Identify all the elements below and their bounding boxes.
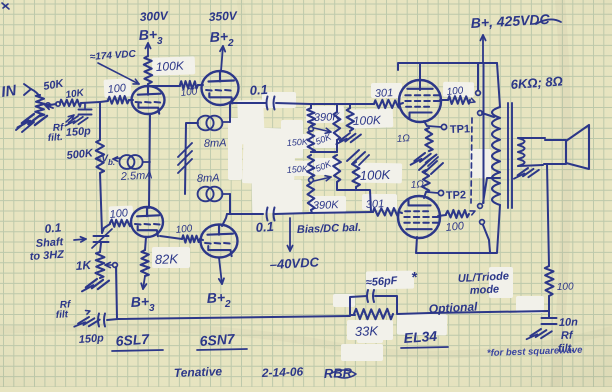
svg-text:Tenative: Tenative (174, 364, 223, 380)
wire secondary to speaker (519, 137, 545, 139)
wiper 1K to feedback (105, 264, 112, 266)
switch terminals #2 (478, 204, 483, 209)
current source 8mA upper (198, 116, 214, 131)
triode V1a (6SL7 a) (132, 86, 165, 114)
svg-text:B+: B+ (130, 293, 149, 310)
ground hatch on bias rail (178, 143, 192, 157)
svg-text:0.1: 0.1 (249, 82, 268, 98)
wire 500K down to lower stage (100, 173, 102, 233)
whiteout patches labels (152, 56, 196, 75)
svg-text:10n: 10n (559, 316, 579, 329)
triode V2b (6SN7 b) (201, 225, 238, 258)
svg-text:1K: 1K (75, 258, 93, 273)
wire varcap node (102, 224, 110, 233)
svg-text:100: 100 (175, 223, 193, 236)
ground (100K upper) (336, 131, 361, 147)
ground (50K pot) (18, 112, 48, 131)
capacitor 150p RF filter (input) (84, 103, 86, 108)
svg-text:300V: 300V (139, 8, 169, 23)
wire wiper to 10K (46, 103, 50, 107)
transformer primary (497, 63, 500, 107)
wire V1a cathode to V1b plate (149, 114, 150, 208)
svg-text:B+: B+ (138, 26, 157, 43)
wire V2b plate top (222, 214, 227, 226)
svg-text:to 3HZ: to 3HZ (29, 249, 65, 263)
svg-text:3: 3 (157, 36, 163, 47)
capacitor 10n RF filter out (542, 317, 557, 319)
ground (150p input filter) (65, 114, 87, 129)
svg-text:100: 100 (107, 82, 127, 96)
resistor 100 (grid stopper V2a) (180, 81, 198, 89)
svg-text:3: 3 (149, 303, 155, 314)
variable capacitor 0.1 shaft (94, 235, 109, 237)
stray mark (2, 3, 9, 9)
triode V2a (6SN7 a) (202, 71, 239, 105)
wire V1b to 82K (145, 237, 146, 250)
svg-text:150p: 150p (78, 332, 104, 346)
svg-text:–40VDC: –40VDC (269, 254, 319, 272)
wire plate V1a up to node (147, 84, 149, 86)
wire bottom of pot chain (337, 182, 371, 212)
switch arrow #1 (470, 98, 475, 102)
svg-text:0.1: 0.1 (44, 220, 62, 236)
cathode TP2 (427, 192, 438, 193)
svg-text:150K: 150K (286, 136, 309, 148)
wire plate node to 100 resistor (148, 85, 180, 87)
svg-text:TP1: TP1 (450, 123, 471, 136)
dashed gang line (471, 118, 472, 203)
svg-text:100: 100 (445, 220, 465, 234)
arrow to -40VDC (289, 218, 291, 251)
svg-text:1Ω: 1Ω (410, 179, 424, 191)
svg-text:mode: mode (470, 283, 500, 297)
ground (150p feedback) (74, 314, 99, 332)
wire source left + bias rail (185, 123, 198, 194)
wire lower row (227, 213, 263, 215)
wire left vertical (plate rail) (483, 63, 485, 203)
ground (secondary) (514, 166, 539, 183)
wire feedback long (397, 311, 549, 314)
svg-text:RBR: RBR (324, 365, 353, 381)
svg-text:150p: 150p (65, 125, 91, 139)
wire V1b out to V2b grid (160, 236, 182, 239)
svg-text:6SL7: 6SL7 (115, 331, 151, 349)
switch arrow #2 (470, 211, 475, 215)
wire 10K to node (81, 102, 100, 103)
svg-text:8mA: 8mA (204, 137, 227, 150)
ground (10n) (527, 327, 552, 344)
svg-text:390K: 390K (313, 199, 340, 212)
svg-text:2-14-06: 2-14-06 (261, 365, 304, 380)
svg-text:350V: 350V (208, 8, 238, 23)
svg-text:100K: 100K (353, 113, 382, 128)
svg-text:≈56pF: ≈56pF (365, 275, 398, 289)
wire UL tap #2 (483, 178, 500, 203)
svg-text:TP2: TP2 (446, 189, 467, 202)
cathode TP1 (424, 121, 427, 126)
svg-text:EL34: EL34 (403, 328, 438, 346)
wire into V1a grid (129, 99, 133, 101)
power B+3 arrow (top) (147, 43, 149, 56)
input jack connector (24, 84, 31, 95)
wire plate #2 to transformer bottom (416, 205, 500, 253)
ground (cathode #1) (411, 151, 437, 168)
svg-text:filt: filt (55, 309, 69, 321)
svg-text:B+: B+ (206, 289, 225, 306)
node mid (311, 151, 337, 153)
resistor 390K upper (310, 104, 312, 108)
capacitor 150p output of feedback (107, 319, 118, 320)
wire plate up + top rail (397, 64, 399, 70)
svg-text:6SN7: 6SN7 (199, 331, 236, 349)
svg-text:filt.: filt. (47, 132, 63, 144)
capacitor 56pF bypass (350, 296, 367, 314)
svg-text:301: 301 (375, 87, 394, 100)
svg-text:Bias/DC bal.: Bias/DC bal. (297, 222, 362, 236)
pot node circle lower (309, 178, 314, 183)
power B+2 arrow (bottom) (219, 258, 222, 284)
wire source to V2b plate (229, 194, 231, 214)
svg-text:Optional: Optional (428, 299, 478, 316)
pentode EL34 #2 (398, 196, 440, 238)
svg-text:1Ω: 1Ω (396, 133, 410, 145)
current source 2.5mA (119, 155, 134, 169)
svg-text:2: 2 (224, 299, 231, 310)
triode V1b (6SL7 b) (131, 207, 163, 237)
svg-text:Rf: Rf (561, 330, 574, 342)
ground (100K lower, flipped) (347, 150, 359, 161)
power B+2 arrow (221, 46, 223, 71)
resistor 390K lower (307, 183, 315, 210)
wire V2a cathode down (230, 99, 232, 122)
speaker (544, 140, 566, 164)
power B+3 arrow (bottom) (143, 276, 145, 289)
switch terminals #1 (476, 91, 481, 96)
pentode EL34 #1 (399, 80, 441, 122)
svg-text:150K: 150K (286, 163, 309, 175)
svg-text:2: 2 (227, 38, 234, 49)
wire triode tap #1 (477, 64, 479, 90)
svg-text:100K: 100K (155, 58, 185, 73)
svg-text:2.5mA: 2.5mA (120, 169, 153, 183)
svg-text:0.1: 0.1 (255, 219, 274, 235)
svg-text:100: 100 (180, 86, 198, 99)
ground (cathode #2) (419, 159, 431, 170)
svg-text:33K: 33K (355, 323, 380, 339)
wire node to 100 grid stopper (100, 101, 108, 102)
transformer core (507, 103, 509, 208)
pot node circle upper (309, 127, 314, 132)
ground (1K) (82, 277, 109, 295)
resistor 33K (354, 309, 393, 320)
whiteout patch cluster center (237, 100, 265, 145)
wire UL tap #1 (482, 113, 494, 117)
svg-text:82K: 82K (155, 251, 180, 267)
svg-text:100K: 100K (360, 167, 392, 183)
svg-text:B+: B+ (209, 28, 228, 45)
wire speaker down (feedback takeoff) (547, 164, 549, 266)
svg-text:100: 100 (557, 281, 574, 293)
svg-text:8mA: 8mA (197, 172, 220, 185)
transformer secondary (518, 138, 525, 166)
wire triode tap #2 (483, 225, 490, 252)
power B+ 425VDC (482, 35, 484, 62)
